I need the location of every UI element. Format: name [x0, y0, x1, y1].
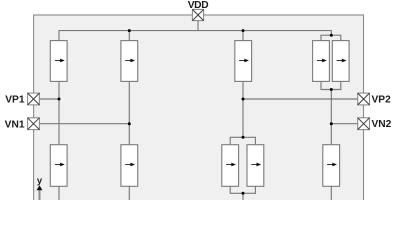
- wire drain M1 column x=59: [58, 81, 60, 144]
- transistor M5: [332, 41, 349, 82]
- transistor M2: [121, 41, 138, 82]
- node junction rail-M2: [128, 29, 131, 32]
- node junction VN2: [330, 122, 333, 125]
- port VN1: [28, 118, 40, 130]
- y axis marker: [37, 176, 43, 200]
- schematic sheet frame: [34, 15, 364, 215]
- node junction top pair lower: [330, 88, 333, 91]
- svg-text:VDD: VDD: [188, 0, 209, 11]
- node junction top pair upper: [330, 34, 333, 37]
- transistor M7: [121, 145, 138, 187]
- transistor M9: [247, 145, 264, 187]
- wire column x=129.3 between M2 and M7: [128, 31, 130, 200]
- transistor M4: [313, 41, 330, 82]
- node junction VP2: [242, 98, 245, 101]
- wire top pair bridge upper: [321, 35, 341, 40]
- transistor M6: [50, 145, 67, 187]
- node junction VN1: [128, 122, 131, 125]
- wire VP1 to node: [39, 98, 59, 100]
- wire VN1 to node: [39, 123, 129, 125]
- node junction VP1: [58, 98, 61, 101]
- node junction bottom pair lower: [242, 192, 245, 195]
- node junction bottom pair upper: [242, 136, 245, 139]
- wire VN2 to node: [331, 123, 357, 125]
- wire column x=331.3 pair to M10: [330, 90, 332, 201]
- port VN2: [358, 118, 370, 130]
- wire VDD top rail: [59, 31, 331, 41]
- wire VP2 to node: [243, 98, 358, 100]
- port VDD: [192, 9, 203, 20]
- node junction rail-M3: [242, 29, 245, 32]
- wire column x=243 between rail, M3 and bottom pair: [242, 31, 244, 200]
- transistor M3: [235, 41, 252, 82]
- transistor M10: [323, 145, 340, 187]
- svg-text:VN2: VN2: [372, 119, 392, 130]
- transistor M1: [50, 41, 67, 82]
- wire top pair bridge lower: [321, 81, 341, 89]
- wire VDD port stub: [197, 21, 199, 31]
- svg-text:y: y: [37, 176, 43, 187]
- wire bottom pair bridge upper: [230, 137, 255, 144]
- svg-text:VN1: VN1: [5, 119, 25, 130]
- svg-text:VP2: VP2: [372, 95, 392, 106]
- port VP2: [358, 93, 370, 105]
- wire M6 source to sheet bottom: [58, 186, 60, 200]
- port VP1: [28, 93, 40, 105]
- transistor M8: [222, 145, 239, 187]
- wire bottom pair bridge lower: [230, 186, 255, 193]
- svg-text:VP1: VP1: [5, 95, 25, 106]
